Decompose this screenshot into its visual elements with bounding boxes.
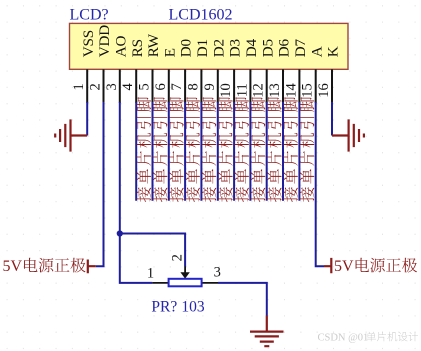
pin number 7 bbox=[169, 83, 185, 90]
pot terminal label 1 bbox=[147, 266, 154, 282]
svg-text:D3: D3 bbox=[227, 39, 244, 57]
svg-text:5V: 5V bbox=[334, 258, 354, 275]
pin 13 (D6) stub bbox=[282, 69, 284, 103]
svg-text:15: 15 bbox=[300, 83, 316, 98]
pin name E bbox=[161, 48, 178, 57]
svg-text:D1: D1 bbox=[194, 39, 211, 57]
wire pin 14 to MCU bbox=[298, 102, 300, 201]
ground symbol bottom (pot pin3) bbox=[250, 316, 284, 347]
svg-text:A: A bbox=[308, 46, 325, 57]
pot terminal label 3 bbox=[214, 265, 221, 281]
net label 接单片机引脚 on pin 12 bbox=[267, 97, 282, 202]
svg-text:RW: RW bbox=[145, 33, 162, 57]
svg-text:CSDN @01: CSDN @01 bbox=[318, 333, 369, 344]
svg-text:5: 5 bbox=[137, 83, 153, 90]
svg-text:14: 14 bbox=[283, 82, 299, 97]
potentiometer PR? body bbox=[169, 279, 202, 287]
pin 12 (D5) stub bbox=[266, 69, 268, 103]
svg-text:2: 2 bbox=[88, 83, 104, 90]
potentiometer PR? wiper lead and arrow bbox=[180, 267, 189, 279]
pin number 6 bbox=[153, 83, 169, 90]
pin number 9 bbox=[202, 83, 218, 90]
svg-text:103: 103 bbox=[181, 298, 205, 315]
LCD1602 component U1 body bbox=[70, 23, 349, 69]
wire junction to pot wiper bbox=[120, 234, 185, 267]
svg-text:AO: AO bbox=[112, 36, 129, 58]
pin 4 (RS) stub bbox=[135, 69, 137, 103]
svg-text:1: 1 bbox=[71, 83, 87, 90]
pin number 8 bbox=[185, 83, 201, 90]
wire pin 6 to MCU bbox=[168, 102, 170, 201]
pin number 10 bbox=[218, 83, 234, 98]
pin number 14 bbox=[283, 82, 299, 97]
svg-text:5V: 5V bbox=[3, 258, 23, 275]
net label 接单片机引脚 on pin 10 bbox=[234, 97, 249, 202]
svg-text:LCD1602: LCD1602 bbox=[169, 6, 233, 23]
+5V power terminal right (pin15) bbox=[324, 258, 331, 273]
label 5V电源正极 left bbox=[3, 258, 86, 275]
pin 5 (RW) stub bbox=[152, 69, 154, 103]
svg-text:D7: D7 bbox=[292, 39, 309, 58]
ground symbol right (pin16) bbox=[332, 119, 364, 151]
svg-text:7: 7 bbox=[169, 83, 185, 90]
pin name A bbox=[308, 46, 325, 57]
svg-text:16: 16 bbox=[316, 83, 332, 98]
net label 接单片机引脚 on pin 7 bbox=[185, 97, 200, 202]
wire pin 10 to MCU bbox=[233, 102, 235, 201]
wire pin 12 to MCU bbox=[266, 102, 268, 201]
pin name D2 bbox=[210, 39, 227, 57]
pin number 3 bbox=[104, 83, 120, 90]
net label 接单片机引脚 on pin 14 bbox=[300, 97, 315, 202]
svg-text:12: 12 bbox=[251, 83, 267, 98]
pin 9 (D2) stub bbox=[217, 69, 219, 103]
pin number 13 bbox=[267, 83, 283, 98]
pin 3 (AO) stub bbox=[119, 69, 121, 103]
pot terminal label 2 bbox=[170, 254, 186, 261]
svg-text:E: E bbox=[161, 48, 178, 57]
wire pin 4 to MCU bbox=[135, 102, 137, 201]
pin name D6 bbox=[276, 39, 293, 58]
svg-text:3: 3 bbox=[104, 83, 120, 90]
svg-text:D0: D0 bbox=[178, 39, 195, 58]
svg-text:13: 13 bbox=[267, 83, 283, 98]
net label 接单片机引脚 on pin 13 bbox=[283, 97, 298, 202]
wire pin 11 to MCU bbox=[249, 102, 251, 201]
pin 16 (K) stub bbox=[331, 69, 333, 103]
wire pin16 K to ground bbox=[331, 102, 333, 136]
pin name D1 bbox=[194, 39, 211, 57]
wire pin 5 to MCU bbox=[152, 102, 154, 201]
pin number 1 bbox=[71, 83, 87, 90]
svg-text:VDD: VDD bbox=[96, 25, 113, 58]
svg-text:6: 6 bbox=[153, 83, 169, 90]
potentiometer PR? pin3 lead bbox=[202, 282, 218, 284]
net label 接单片机引脚 on pin 4 bbox=[137, 97, 152, 202]
pin name VSS bbox=[80, 30, 97, 57]
pin 2 (VDD) stub bbox=[103, 69, 105, 103]
pin number 4 bbox=[120, 82, 136, 90]
svg-text:D4: D4 bbox=[243, 39, 260, 58]
svg-text:D6: D6 bbox=[276, 39, 293, 58]
wire pin 8 to MCU bbox=[200, 102, 202, 201]
svg-text:K: K bbox=[325, 46, 342, 57]
svg-text:VSS: VSS bbox=[80, 30, 97, 57]
svg-text:D5: D5 bbox=[259, 39, 276, 57]
pin name D0 bbox=[178, 39, 195, 58]
pin name RS bbox=[129, 39, 146, 57]
pin name D5 bbox=[259, 39, 276, 57]
pin 11 (D4) stub bbox=[249, 69, 251, 103]
pin 6 (E) stub bbox=[168, 69, 170, 103]
pin name D4 bbox=[243, 39, 260, 58]
net label 接单片机引脚 on pin 8 bbox=[202, 97, 217, 202]
pin name D7 bbox=[292, 39, 309, 58]
wire pin2 VDD to +5V terminal bbox=[96, 102, 104, 266]
pin 8 (D1) stub bbox=[200, 69, 202, 103]
pin name AO bbox=[112, 36, 129, 58]
pin name K bbox=[325, 46, 342, 57]
net label 接单片机引脚 on pin 5 bbox=[153, 97, 168, 202]
net label 接单片机引脚 on pin 6 bbox=[169, 97, 184, 202]
pin number 15 bbox=[300, 83, 316, 98]
wire junction down to pot pin1 bbox=[120, 234, 153, 283]
pin number 16 bbox=[316, 83, 332, 98]
wire pin 7 to MCU bbox=[184, 102, 186, 201]
pin number 5 bbox=[137, 83, 153, 90]
label 5V电源正极 right bbox=[334, 258, 417, 275]
svg-text:9: 9 bbox=[202, 83, 218, 90]
wire pot pin3 to ground bbox=[218, 283, 267, 316]
+5V power terminal left (pin2) bbox=[88, 260, 96, 274]
pin name VDD bbox=[96, 25, 113, 58]
wire pin15 A to +5V terminal bbox=[316, 102, 324, 266]
svg-text:1: 1 bbox=[147, 266, 154, 282]
watermark CSDN @01单片机设计 bbox=[318, 332, 418, 344]
wire pin 9 to MCU bbox=[217, 102, 219, 201]
wire pin1 VSS to ground bbox=[86, 102, 88, 136]
svg-text:10: 10 bbox=[218, 83, 234, 98]
junction node (pin3 / pot) bbox=[117, 230, 123, 236]
pin number 2 bbox=[88, 83, 104, 90]
pin 10 (D3) stub bbox=[233, 69, 235, 103]
wire pin3 AO down to junction bbox=[119, 102, 121, 234]
pin 1 (VSS) stub bbox=[86, 69, 88, 103]
potentiometer PR? pin1 lead bbox=[152, 282, 168, 284]
pin name RW bbox=[145, 33, 162, 57]
svg-text:8: 8 bbox=[185, 83, 201, 90]
pin number 12 bbox=[251, 83, 267, 98]
svg-text:LCD?: LCD? bbox=[70, 6, 109, 23]
pin 15 (A) stub bbox=[315, 69, 317, 103]
pin name D3 bbox=[227, 39, 244, 57]
pin 7 (D0) stub bbox=[184, 69, 186, 103]
svg-text:2: 2 bbox=[170, 254, 186, 261]
net label 接单片机引脚 on pin 11 bbox=[251, 97, 266, 202]
svg-text:D2: D2 bbox=[210, 39, 227, 57]
wire pin 13 to MCU bbox=[282, 102, 284, 201]
svg-text:RS: RS bbox=[129, 39, 146, 57]
svg-text:4: 4 bbox=[120, 82, 136, 90]
svg-text:3: 3 bbox=[214, 265, 221, 281]
pin 14 (D7) stub bbox=[298, 69, 300, 103]
svg-text:PR?: PR? bbox=[151, 298, 177, 315]
net label 接单片机引脚 on pin 9 bbox=[218, 97, 233, 202]
svg-text:11: 11 bbox=[234, 83, 250, 97]
pin number 11 bbox=[234, 83, 250, 97]
ground symbol left (pin1) bbox=[55, 119, 87, 151]
